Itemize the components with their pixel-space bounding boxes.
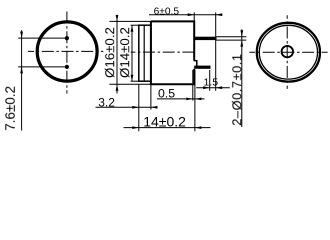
tab on right face: [194, 61, 197, 66]
dia14 extension top: [131, 24, 139, 26]
dim 6 extension left: [193, 12, 195, 21]
dim 0.5 arrow right: [195, 98, 202, 101]
middle view body tall section: [151, 21, 194, 84]
arrow up to lower ext: [20, 67, 23, 74]
pin dot upper: [65, 36, 69, 40]
svg-text:1.5: 1.5: [203, 76, 218, 88]
dim 3.2 arrow right: [151, 106, 158, 109]
pin dia arrow bottom: [240, 40, 243, 47]
dia14 extension bottom: [131, 80, 139, 82]
dim 0.5 extension left plate inner: [192, 70, 194, 101]
dia14 arrow bottom: [131, 75, 134, 82]
right view center hole: [282, 46, 293, 57]
dim 0.5 extension right and dim 14 right extension: [194, 70, 196, 132]
dia16 arrow top: [116, 15, 119, 22]
left view outer circle: [37, 22, 97, 81]
dim 3.2 extension left: [138, 84, 140, 131]
left view horizontal centerline: [28, 50, 104, 52]
dim 14 arrow right: [195, 126, 202, 129]
middle view centerline: [131, 51, 197, 53]
bottom pin: [194, 66, 210, 69]
dim 3.2 extension right: [150, 84, 152, 109]
pin dot lower: [65, 65, 69, 69]
detail line front cover: [143, 25, 145, 81]
dim 6 arrow left: [188, 13, 195, 16]
pin diameter extension bottom: [216, 39, 247, 41]
dia16 dimension line: [116, 15, 118, 94]
pin diameter extension top: [216, 36, 247, 38]
dimension line 7.6: [21, 30, 23, 130]
dim 3.2 line: [96, 106, 158, 108]
dia16 extension top: [109, 20, 150, 22]
dim 1.5 arrow right: [216, 86, 223, 89]
dia16 arrow bottom: [116, 84, 119, 91]
extension line lower pin: [18, 66, 67, 68]
dia16 extension bottom: [109, 83, 150, 85]
dim 6 line: [149, 14, 223, 16]
svg-text:Ø16±0.2: Ø16±0.2: [102, 27, 117, 78]
dim 14 arrow left: [132, 126, 139, 129]
svg-text:7.6±0.2: 7.6±0.2: [3, 86, 18, 131]
right view vertical centerline: [286, 15, 288, 89]
dim 6 arrow right: [216, 13, 223, 16]
svg-text:14±0.2: 14±0.2: [143, 113, 186, 129]
dim 0.5 arrow left: [186, 98, 193, 101]
dia14 arrow top: [131, 25, 134, 32]
dim 6 extension right long: [215, 12, 217, 90]
right view outer circle: [257, 23, 320, 82]
svg-text:3.2: 3.2: [98, 96, 115, 110]
right view horizontal centerline: [249, 51, 327, 53]
svg-text:0.5: 0.5: [158, 87, 175, 101]
pin diameter dimension line: [241, 29, 243, 127]
dim 3.2 arrow left: [132, 106, 139, 109]
extension line upper pin: [18, 37, 67, 39]
svg-text:2–Ø0.7±0.1: 2–Ø0.7±0.1: [229, 53, 244, 125]
left view vertical centerline: [66, 12, 68, 94]
right view inner circle: [259, 25, 317, 79]
dia14 dimension line: [131, 25, 133, 81]
top pin: [194, 37, 216, 40]
pin dia arrow top: [240, 30, 243, 37]
dim 1.5 extension left: [209, 70, 211, 91]
svg-text:6±0.5: 6±0.5: [154, 7, 180, 18]
dim 0.5 line: [157, 98, 205, 100]
middle view body short section: [139, 25, 151, 81]
arrow down to upper ext: [20, 32, 23, 38]
dim 14 line: [124, 127, 211, 129]
dim 1.5 arrow left: [203, 86, 210, 89]
svg-text:Ø14±0.2: Ø14±0.2: [117, 27, 132, 78]
dim 1.5 line: [196, 87, 230, 89]
